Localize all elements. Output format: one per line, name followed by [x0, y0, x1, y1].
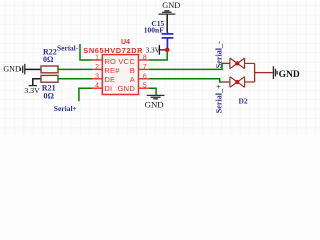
svg-text:RO: RO [104, 57, 116, 66]
wire pin8 to 3.3V junction [149, 50, 167, 60]
svg-text:Serial+: Serial+ [54, 104, 77, 113]
pin stub D2 row2 left [221, 81, 230, 83]
wire R21 left + down to 3.3V [33, 79, 41, 86]
svg-text:0Ω: 0Ω [44, 91, 55, 100]
wire Serial- stub to pin1 [80, 44, 92, 60]
junction dot D2 row2 [235, 80, 239, 84]
resistor R22 [41, 66, 58, 73]
svg-text:Serial-: Serial- [57, 43, 79, 52]
svg-text:8: 8 [143, 55, 147, 62]
svg-text:3: 3 [95, 73, 99, 80]
capacitor C15 [162, 32, 174, 49]
pin stub D2 row1 left [224, 62, 230, 64]
wire R22 to pin2 [58, 68, 92, 70]
pin 5 stub [139, 87, 149, 89]
pin 2 stub [92, 68, 103, 70]
wire C15 to GND top [166, 15, 168, 32]
wire GND to R22 [25, 68, 41, 70]
wire R21 to pin3 [58, 78, 92, 80]
svg-text:6: 6 [143, 73, 147, 80]
svg-text:GND: GND [118, 84, 136, 93]
svg-text:VCC: VCC [118, 57, 135, 66]
svg-text:GND: GND [3, 65, 21, 74]
diode pair D2 row2 [230, 77, 255, 88]
svg-text:3.3V: 3.3V [24, 86, 40, 95]
wire Serial+ stub to pin4 [79, 88, 92, 101]
pin 1 stub [92, 59, 103, 61]
resistor R21 [41, 75, 58, 82]
svg-text:A: A [130, 75, 135, 84]
wire D2 to GND right [255, 72, 273, 74]
svg-text:7: 7 [143, 64, 147, 71]
svg-text:Serial_-: Serial_- [214, 41, 223, 68]
pin 3 stub [92, 78, 103, 80]
wire pin5 to GND bottom [149, 88, 156, 95]
power port 3.3V top [159, 45, 165, 55]
svg-text:3.3V: 3.3V [146, 47, 161, 55]
svg-text:DE: DE [104, 75, 115, 84]
ground GND top symbol [159, 11, 176, 14]
svg-text:RE#: RE# [104, 66, 120, 75]
IC U4 body [102, 55, 138, 95]
svg-text:DI: DI [104, 84, 112, 93]
svg-text:GND: GND [145, 100, 164, 110]
junction dot D2 row1 [235, 61, 239, 65]
wire pin6 to D2 row2 [149, 79, 221, 82]
ground GND bottom symbol [147, 95, 165, 98]
svg-text:1: 1 [95, 55, 99, 62]
svg-text:100nF: 100nF [144, 25, 164, 34]
diode pair D2 row1 [230, 58, 255, 69]
pin 8 stub [139, 59, 149, 61]
wire pin7 to D2 row1 [149, 63, 224, 69]
junction dot [165, 48, 170, 53]
pin 6 stub [139, 78, 149, 80]
svg-text:D2: D2 [239, 97, 248, 106]
svg-text:5: 5 [143, 83, 147, 90]
svg-text:U4: U4 [121, 39, 130, 46]
svg-text:Serial_+: Serial_+ [214, 84, 223, 113]
svg-text:SN65HVD72DR: SN65HVD72DR [83, 46, 143, 55]
ground GND left symbol [21, 64, 25, 75]
svg-text:0Ω: 0Ω [43, 55, 54, 64]
svg-text:GND: GND [279, 70, 300, 80]
ground GND right symbol [273, 66, 277, 79]
svg-text:4: 4 [95, 83, 99, 90]
svg-text:B: B [130, 66, 135, 75]
svg-text:2: 2 [95, 64, 99, 71]
pin 7 stub [139, 68, 149, 70]
wire D2 join vertical [254, 63, 256, 82]
power port 3.3V left [29, 85, 37, 87]
pin 4 stub [92, 87, 103, 89]
svg-text:GND: GND [162, 1, 180, 10]
